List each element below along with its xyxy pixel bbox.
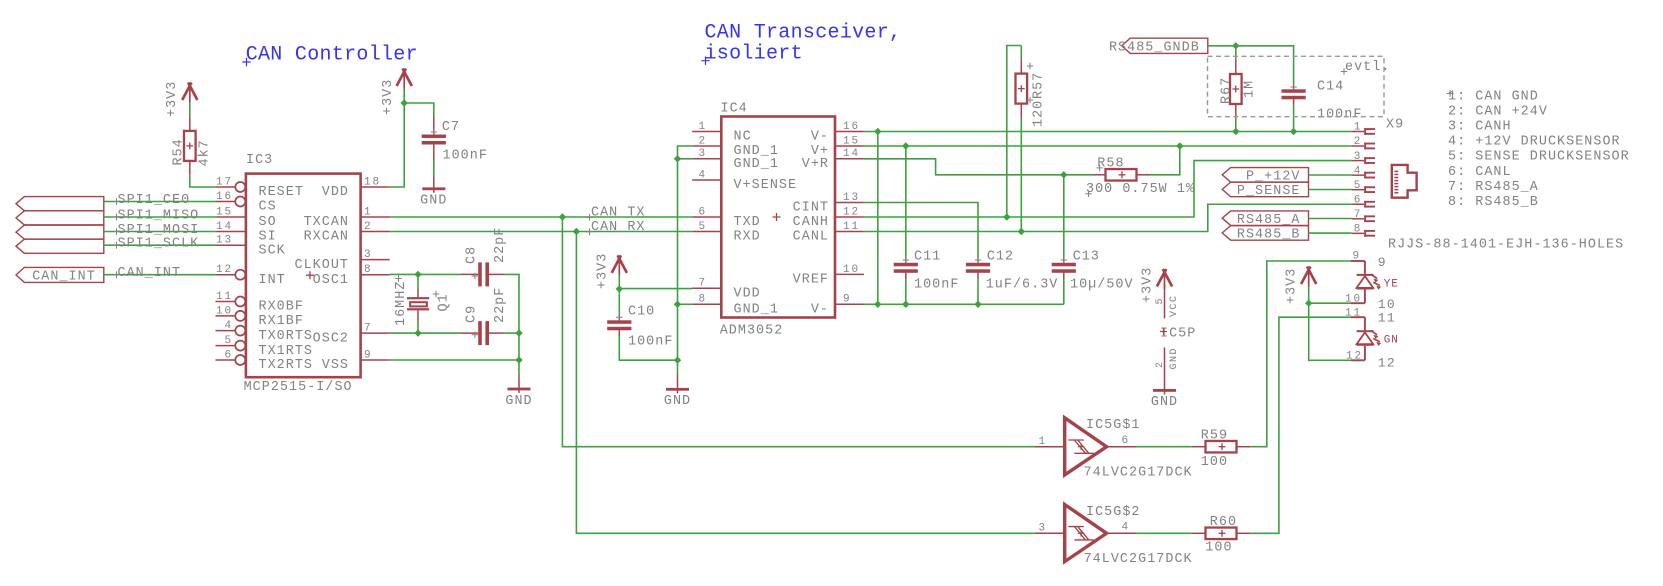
svg-text:100: 100: [1201, 455, 1228, 470]
svg-text:5: SENSE DRUCKSENSOR: 5: SENSE DRUCKSENSOR: [1448, 150, 1630, 165]
svg-text:4: +12V DRUCKSENSOR: 4: +12V DRUCKSENSOR: [1448, 135, 1621, 150]
resistor R67: [1220, 60, 1258, 118]
svg-text:SO: SO: [259, 215, 277, 230]
svg-text:GND: GND: [420, 194, 447, 209]
svg-text:9: 9: [1352, 250, 1361, 262]
label CAN_INT: [113, 266, 181, 281]
svg-text:R60: R60: [1210, 515, 1237, 530]
label CAN_TX: [586, 206, 645, 221]
X9 pin 3 pad: [1352, 151, 1375, 164]
wire CAN_INT: [104, 274, 216, 276]
svg-text:100nF: 100nF: [914, 278, 959, 293]
svg-text:300 0.75W 1%: 300 0.75W 1%: [1086, 182, 1195, 197]
svg-text:2: CAN +24V: 2: CAN +24V: [1448, 104, 1548, 119]
svg-text:5: 5: [224, 335, 233, 347]
resistor R59: [1192, 429, 1251, 470]
svg-text:R57: R57: [1031, 72, 1046, 99]
X9 pin 4 pad: [1352, 165, 1375, 178]
supply +3V3 (R54): [165, 81, 197, 117]
svg-text:3: 3: [1354, 151, 1362, 163]
svg-text:CAN_INT: CAN_INT: [32, 269, 96, 284]
capacitor C12: [966, 250, 1058, 293]
svg-text:6: 6: [224, 349, 233, 361]
svg-text:Q1: Q1: [436, 293, 451, 311]
svg-text:C11: C11: [914, 250, 941, 265]
svg-text:9: 9: [364, 349, 373, 361]
svg-text:R67: R67: [1220, 77, 1235, 104]
svg-text:10: 10: [216, 305, 233, 317]
LED green (GN): [1351, 317, 1399, 360]
svg-text:GND_1: GND_1: [734, 303, 779, 318]
flag RS485_B: [1222, 226, 1308, 243]
wire junction to C7: [404, 103, 434, 117]
svg-text:NC: NC: [734, 130, 752, 145]
IC3 pin 13 (SCK): [216, 235, 286, 259]
svg-text:C9: C9: [465, 305, 480, 323]
svg-text:5: 5: [1155, 297, 1166, 305]
wire +3V3 to VDD pin 18: [390, 89, 405, 188]
svg-text:8: 8: [1354, 224, 1362, 236]
svg-text:TXD: TXD: [734, 215, 761, 230]
flag SPI1_CE0: [16, 197, 104, 211]
svg-text:6: 6: [1122, 435, 1131, 447]
IC4 pin 6 (TXD): [692, 206, 761, 230]
svg-text:IC3: IC3: [246, 153, 273, 168]
svg-text:RS485_GNDB: RS485_GNDB: [1109, 41, 1200, 56]
resistor R54: [172, 117, 213, 176]
svg-text:1: 1: [1038, 436, 1047, 448]
svg-text:C13: C13: [1073, 250, 1100, 265]
X9 pin assignment list: [1447, 89, 1630, 210]
svg-text:7: 7: [698, 278, 707, 290]
svg-text:5: 5: [1354, 180, 1362, 192]
svg-text:SPI1_CE0: SPI1_CE0: [118, 193, 191, 208]
capacitor C9: [460, 287, 508, 345]
svg-text:VCC: VCC: [1169, 294, 1180, 317]
svg-text:CS: CS: [259, 200, 277, 215]
IC3 pin 15 (SO): [216, 206, 277, 230]
svg-text:SCK: SCK: [259, 243, 286, 258]
svg-text:9: 9: [843, 294, 852, 306]
wire R67 top: [1235, 46, 1237, 60]
flag P_+12V: [1222, 168, 1308, 185]
supply +3V3 (IC4): [595, 253, 627, 289]
junction VDD/C10: [616, 285, 623, 292]
svg-text:1: CAN GND: 1: CAN GND: [1448, 89, 1539, 104]
svg-text:RXCAN: RXCAN: [304, 230, 349, 245]
IC3 pin 9 (VSS): [322, 349, 390, 373]
flag P_SENSE: [1222, 182, 1308, 199]
svg-text:CAN_INT: CAN_INT: [118, 266, 182, 281]
IC5P GND pin: [1155, 347, 1180, 389]
wire +3V3 to VDD: [619, 275, 692, 288]
svg-text:+3V3: +3V3: [1285, 268, 1300, 304]
LED yellow (YE): [1351, 261, 1399, 303]
svg-text:evtl.: evtl.: [1345, 60, 1390, 75]
svg-text:C8: C8: [465, 246, 480, 264]
flag SPI1_MISO: [16, 211, 104, 225]
IC4 pin 15 (V+): [811, 135, 864, 159]
junction V- riser top: [874, 128, 881, 135]
svg-text:VREF: VREF: [793, 273, 829, 288]
junction OSC2/crystal: [414, 329, 421, 336]
junction C10/GND: [674, 357, 681, 364]
wire V- bottom rail: [864, 303, 1064, 305]
svg-text:5: 5: [698, 221, 707, 233]
svg-text:R54: R54: [172, 138, 187, 165]
X9 pin 8 pad: [1352, 224, 1375, 237]
wire OSC2 row: [390, 332, 461, 334]
wire C13 riser: [1063, 175, 1065, 257]
IC4 pin 2 (GND_1): [692, 135, 779, 159]
wire V- riser: [877, 132, 879, 305]
flag SPI1_SCLK: [16, 239, 104, 253]
ground (VSS): [505, 375, 532, 409]
svg-text:15: 15: [843, 135, 860, 147]
svg-text:12: 12: [1378, 356, 1396, 371]
wire +3V3 LED stem: [1308, 287, 1310, 304]
wire CANH net: [864, 161, 1352, 217]
IC3 pin 10 (RX1BF): [216, 305, 304, 329]
svg-text:+3V3: +3V3: [595, 253, 610, 289]
svg-text:INT: INT: [259, 273, 286, 288]
svg-text:P_SENSE: P_SENSE: [1237, 184, 1301, 199]
svg-text:3: 3: [1038, 523, 1047, 535]
wire P_SENSE: [1309, 189, 1352, 191]
op IC4 box: [720, 102, 835, 339]
RJ45 jack icon: [1392, 165, 1417, 198]
wire VSS row: [390, 359, 519, 361]
svg-text:100nF: 100nF: [443, 149, 488, 164]
ground (C7): [420, 176, 447, 209]
label SPI1_MISO: [113, 209, 199, 224]
IC3 pin 7 (OSC2): [313, 323, 390, 347]
IC4 pin 14 (V+R): [802, 148, 864, 172]
wire GND_1 pin 3 stub: [678, 158, 693, 160]
svg-text:2: 2: [364, 221, 373, 233]
power symbol IC5P: [1160, 327, 1196, 342]
svg-text:74LVC2G17DCK: 74LVC2G17DCK: [1084, 466, 1193, 481]
svg-text:C10: C10: [628, 305, 655, 320]
wire SPI1_MOSI: [104, 231, 217, 233]
svg-text:TX2RTS: TX2RTS: [259, 358, 314, 373]
X9 pin 11 label: [1345, 307, 1396, 325]
svg-text:V+SENSE: V+SENSE: [734, 178, 798, 193]
svg-text:R59: R59: [1201, 429, 1228, 444]
svg-text:IC5G$1: IC5G$1: [1086, 418, 1141, 433]
X9 pin 6 pad: [1352, 194, 1375, 207]
junction R67/V-: [1232, 128, 1239, 135]
svg-text:V+R: V+R: [802, 157, 829, 172]
svg-text:7: RS485_A: 7: RS485_A: [1448, 180, 1539, 195]
svg-text:TX1RTS: TX1RTS: [259, 344, 314, 359]
svg-text:1M: 1M: [1243, 80, 1258, 98]
junction C11/V- rail: [902, 301, 909, 308]
svg-text:C14: C14: [1317, 80, 1344, 95]
svg-text:TX0RTS: TX0RTS: [259, 329, 314, 344]
svg-text:RJJS-88-1401-EJH-136-HOLES: RJJS-88-1401-EJH-136-HOLES: [1388, 238, 1624, 253]
svg-text:2: 2: [698, 135, 707, 147]
wire OSC1 to C8: [390, 273, 461, 275]
resistor R60: [1192, 515, 1251, 556]
label SPI1_MOSI: [113, 223, 199, 238]
wire SPI1_MISO: [104, 216, 217, 218]
svg-text:+3V3: +3V3: [381, 79, 396, 115]
label RJJS-88-1401-EJH-136-HOLES: [1388, 238, 1624, 253]
buffer IC5G$2: [1035, 505, 1193, 568]
svg-text:1: 1: [698, 121, 707, 133]
svg-text:+3V3: +3V3: [1141, 267, 1156, 303]
svg-text:CAN_RX: CAN_RX: [591, 220, 646, 235]
svg-text:7: 7: [1354, 209, 1362, 221]
wire C14 to V-: [1293, 104, 1295, 132]
wire CANL net: [864, 204, 1352, 231]
svg-text:IC5G$2: IC5G$2: [1086, 505, 1141, 520]
label SPI1_SCLK: [113, 237, 199, 252]
wire C8 to corner: [505, 274, 519, 333]
svg-text:14: 14: [216, 221, 233, 233]
wire C12 to V- rail: [977, 279, 979, 305]
X9 pin 5 pad: [1352, 180, 1375, 193]
wire RS485_A: [1309, 218, 1352, 220]
crystal Q1: [394, 275, 451, 326]
connector X9 label: [1386, 118, 1404, 133]
wire R54 to RESET pin: [190, 175, 216, 187]
svg-text:OSC1: OSC1: [313, 273, 349, 288]
wire R57 right leg: [1020, 118, 1022, 232]
IC3 pin 12 (INT): [216, 264, 286, 288]
wire GND_1 pin 8 stub: [678, 303, 693, 305]
X9 pin 12 label: [1346, 350, 1396, 370]
svg-text:CLKOUT: CLKOUT: [294, 258, 349, 273]
svg-text:CANL: CANL: [793, 230, 829, 245]
IC4 pin 11 (CANL): [793, 221, 864, 245]
svg-text:OSC2: OSC2: [313, 331, 349, 346]
IC3 pin 16 (CS): [216, 191, 277, 215]
wire V+R net: [864, 159, 1092, 175]
svg-text:11: 11: [1378, 311, 1396, 326]
wire SPI1_SCLK: [104, 244, 217, 246]
wire V- row (pin16): [864, 131, 1352, 133]
title: CAN Transceiver, isoliert: [701, 22, 901, 66]
svg-text:74LVC2G17DCK: 74LVC2G17DCK: [1084, 552, 1193, 567]
junction C12/V- rail: [974, 301, 981, 308]
X9 pin 7 pad: [1352, 209, 1375, 222]
dashed box evtl.: [1208, 56, 1391, 116]
capacitor C13: [1052, 250, 1134, 293]
svg-text:GN: GN: [1384, 335, 1399, 347]
wire crystal top: [417, 274, 419, 289]
junction V+/C11: [902, 142, 909, 149]
junction GND_1 pin8: [674, 301, 681, 308]
svg-text:3: 3: [698, 148, 707, 160]
wire R59 to LED pin 9: [1250, 261, 1351, 447]
IC3 pin 4 (TX0RTS): [216, 320, 314, 344]
junction +3V3 LEDs: [1305, 300, 1312, 307]
junction CANH/R57: [1003, 213, 1010, 220]
IC3 pin 6 (TX2RTS): [216, 349, 314, 373]
wire RS485_B: [1309, 232, 1352, 234]
svg-text:4: 4: [1354, 165, 1362, 177]
svg-text:SPI1_MISO: SPI1_MISO: [118, 209, 200, 224]
wire buffer2 to R60: [1136, 532, 1191, 534]
svg-text:10µ/50V: 10µ/50V: [1070, 278, 1134, 293]
svg-text:RXD: RXD: [734, 230, 761, 245]
svg-text:8: 8: [698, 294, 707, 306]
wire junction to C10: [618, 289, 620, 314]
IC4 pin 5 (RXD): [692, 221, 761, 245]
IC3 pin 17 (RESET): [216, 176, 304, 200]
IC4 pin 3 (GND_1): [692, 148, 779, 172]
svg-text:IC4: IC4: [721, 102, 748, 117]
capacitor C7: [422, 117, 488, 164]
svg-text:ADM3052: ADM3052: [720, 324, 784, 339]
IC4 pin 4 (V+SENSE): [692, 169, 797, 193]
wire GND_1 pins 2/3 to 8: [678, 146, 693, 360]
junction VSS: [515, 356, 522, 363]
junction RS485_GNDB/R67: [1232, 42, 1239, 49]
junction CAN_TX tap: [559, 213, 566, 220]
wire +3V3 to LED pin 12: [1309, 303, 1351, 360]
label CAN_RX: [586, 220, 645, 235]
svg-text:10: 10: [1345, 293, 1362, 305]
IC4 pin 16 (V-): [811, 121, 864, 145]
svg-text:CAN Transceiver,: CAN Transceiver,: [705, 22, 902, 45]
junction GND_1 pin3: [674, 155, 681, 162]
svg-text:VSS: VSS: [322, 358, 349, 373]
svg-text:RESET: RESET: [259, 185, 304, 200]
svg-text:GND: GND: [1169, 347, 1180, 370]
svg-text:8: 8: [364, 264, 373, 276]
capacitor C11: [894, 250, 960, 293]
wire GND_1 to ground: [677, 360, 679, 374]
wire R60 to LED pin 11: [1250, 317, 1351, 533]
svg-text:11: 11: [216, 291, 233, 303]
svg-text:6: 6: [1354, 194, 1362, 206]
wire CAN_TX to buffer 1: [562, 217, 1035, 447]
svg-text:RS485_B: RS485_B: [1237, 228, 1301, 243]
svg-text:4: 4: [224, 320, 233, 332]
resistor R57: [1016, 46, 1047, 128]
junction R58/V+: [1176, 142, 1183, 149]
svg-text:+3V3: +3V3: [165, 81, 180, 117]
IC4 pin 1 (NC): [692, 121, 751, 145]
flag SPI1_MOSI: [16, 225, 104, 239]
svg-text:12: 12: [843, 206, 860, 218]
IC4 pin 7 (VDD): [692, 278, 761, 302]
IC4 pin 9 (V-): [811, 294, 864, 318]
X9 pin 10 label: [1345, 293, 1396, 312]
svg-text:120: 120: [1031, 100, 1046, 127]
svg-text:2: 2: [1354, 136, 1362, 148]
junction V+R/C13: [1060, 171, 1067, 178]
junction CAN_RX tap: [573, 228, 580, 235]
svg-text:100nF: 100nF: [1317, 108, 1362, 123]
op IC3 box: [244, 153, 361, 395]
wire C11 riser: [905, 146, 907, 257]
wire R58 to V+: [1150, 146, 1180, 175]
wire C9 to VSS net: [505, 332, 519, 334]
svg-text:TXCAN: TXCAN: [304, 215, 349, 230]
svg-text:16: 16: [843, 121, 860, 133]
IC3 pin 2 (RXCAN): [304, 221, 390, 245]
IC3 pin 14 (SI): [216, 221, 277, 245]
svg-text:1uF/6.3V: 1uF/6.3V: [986, 278, 1059, 293]
svg-text:13: 13: [843, 192, 860, 204]
IC3 pin 18 (VDD): [322, 176, 390, 200]
IC3 pin 8 (OSC1): [306, 264, 390, 288]
svg-text:CAN_TX: CAN_TX: [591, 206, 646, 221]
wire crystal bottom: [417, 321, 419, 333]
svg-text:100nF: 100nF: [628, 335, 673, 350]
svg-text:2: 2: [1155, 360, 1166, 368]
svg-text:CINT: CINT: [793, 201, 829, 216]
svg-text:IC5P: IC5P: [1160, 327, 1196, 342]
svg-text:GND: GND: [1151, 395, 1178, 410]
svg-text:GND: GND: [664, 394, 691, 409]
ground (IC4): [664, 375, 691, 410]
svg-text:X9: X9: [1386, 118, 1404, 133]
svg-text:R58: R58: [1097, 156, 1124, 171]
IC5P VCC pin: [1155, 284, 1180, 318]
junction V- riser bottom: [874, 301, 881, 308]
title: CAN Controller: [242, 44, 418, 67]
wire +3V3 to LED pin 10: [1309, 302, 1351, 304]
wire buffer1 to R59: [1136, 446, 1191, 448]
svg-text:VDD: VDD: [322, 185, 349, 200]
wire C13 to V- rail: [1063, 279, 1065, 305]
svg-text:8: RS485_B: 8: RS485_B: [1448, 195, 1539, 210]
svg-text:12: 12: [1346, 350, 1363, 362]
junction OSC1/crystal: [414, 271, 421, 278]
svg-text:1: 1: [364, 206, 373, 218]
X9 pin 9 label: [1352, 250, 1386, 270]
IC4 pin 13 (CINT): [793, 192, 864, 216]
junction CANL/R57: [1018, 228, 1025, 235]
supply +3V3 (C7): [381, 69, 412, 116]
wire VSS to GND: [518, 333, 520, 375]
wire C7 to GND: [433, 161, 435, 177]
svg-text:11: 11: [1345, 307, 1362, 319]
wire RS485_GNDB: [1208, 46, 1294, 84]
flag RS485_GNDB: [1109, 38, 1208, 56]
svg-text:1: 1: [1354, 122, 1362, 134]
wire C11 to V- rail: [905, 279, 907, 305]
svg-text:C12: C12: [987, 250, 1014, 265]
capacitor C10: [607, 305, 673, 350]
svg-text:100: 100: [1205, 541, 1232, 556]
wire CAN_TX: [390, 216, 693, 218]
capacitor C14: [1282, 80, 1363, 123]
junction +3V3/C7: [401, 99, 408, 106]
svg-text:GND: GND: [505, 394, 532, 409]
svg-text:YE: YE: [1384, 278, 1399, 290]
svg-text:CANH: CANH: [793, 215, 829, 230]
svg-text:6: 6: [698, 206, 707, 218]
wire R57 left leg: [1007, 46, 1022, 218]
svg-text:11: 11: [843, 221, 860, 233]
svg-text:CAN Controller: CAN Controller: [246, 44, 418, 67]
X9 pin 1 pad: [1352, 122, 1375, 135]
svg-text:VDD: VDD: [734, 287, 761, 302]
svg-text:isoliert: isoliert: [705, 42, 803, 65]
flag CAN_INT: [16, 267, 104, 284]
svg-text:18: 18: [364, 176, 381, 188]
svg-text:RX1BF: RX1BF: [259, 314, 304, 329]
IC4 pin 12 (CANH): [773, 206, 864, 230]
ground (IC5P): [1151, 389, 1178, 410]
wire CINT net: [864, 203, 978, 258]
